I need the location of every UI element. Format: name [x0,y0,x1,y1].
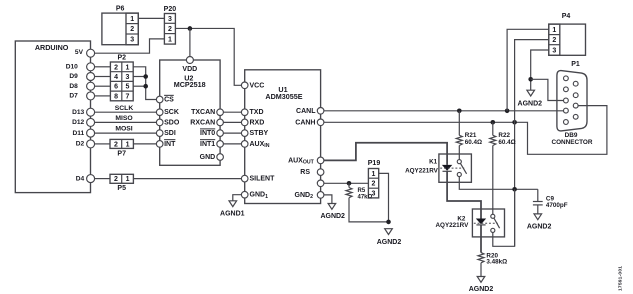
K1 opto coupling dashes [440,167,464,169]
junction CANH-P4.2 [512,120,517,125]
U1 pin TXD [241,109,248,116]
connector P7 [110,139,133,148]
svg-text:AGND2: AGND2 [320,213,345,220]
svg-text:AQY221RV: AQY221RV [405,167,439,174]
U1 pin GND_2 [317,192,324,199]
U1 pin GND_1 [241,191,248,198]
svg-text:3: 3 [126,74,130,81]
svg-text:D9: D9 [69,73,78,80]
wire 5V to P20 pin1 [95,39,164,53]
ground AGND2 at U1 [328,204,336,210]
Arduino pin D2 [87,140,95,148]
svg-text:D13: D13 [72,109,84,116]
U2 pin INT0 [217,130,224,137]
svg-text:CS: CS [164,97,174,104]
U1 pin SILENT [241,175,248,182]
junction tap [512,187,517,192]
svg-text:P7: P7 [117,150,126,157]
U2 pin INT1 [217,141,224,148]
svg-text:17591-001: 17591-001 [618,266,624,291]
svg-text:INT: INT [164,141,176,148]
svg-text:SCLK: SCLK [115,105,134,112]
svg-text:SCK: SCK [164,109,179,116]
K1 LED [446,154,448,165]
wire P2 pins 1,3,5 to U2 CS [133,67,156,100]
wire TXCAN to TXD [224,111,242,113]
svg-text:1: 1 [126,141,130,148]
svg-text:P5: P5 [117,185,126,192]
svg-text:4: 4 [114,74,118,81]
wire P20 pin2 to VDD and VCC rail [175,28,241,85]
Arduino pin 5V [87,49,95,57]
wire INT1 to AUXIN [224,143,242,145]
svg-text:P20: P20 [164,6,177,13]
svg-text:1: 1 [552,27,556,34]
svg-text:2: 2 [552,37,556,44]
svg-text:3: 3 [168,16,172,23]
svg-text:1: 1 [126,176,130,183]
K2 switch contacts [491,214,495,218]
DB9 pin hole left 5 [564,120,569,125]
ground AGND2 at P4 [527,90,535,96]
svg-text:2: 2 [168,26,172,33]
wire P7 to U2 INT [133,143,156,145]
svg-text:AGND2: AGND2 [469,286,494,293]
svg-text:SDI: SDI [164,130,176,137]
wire AGND2 net to DB9 pin3 [531,79,564,100]
ground AGND2 at R20 [477,277,485,283]
connector P20 [164,14,175,45]
wire P5 to U1 SILENT [133,178,241,180]
svg-text:D11: D11 [72,130,84,137]
U2 pin SDO [156,119,163,126]
resistor R22 60.4ohm [492,122,494,135]
connector P19 [368,169,378,198]
U2 pin RXCAN [217,119,224,126]
svg-text:60.4Ω: 60.4Ω [465,139,482,146]
U1 pin VCC [241,82,248,89]
U2 pin SCK [156,109,163,116]
junction RS-R5 [347,181,352,186]
svg-text:7: 7 [126,93,130,100]
ground AGND2 at C9 [534,214,542,220]
DB9 pin hole right 9 [573,114,578,119]
svg-text:1: 1 [168,36,172,43]
svg-text:3: 3 [130,37,134,44]
U1 pin RS [317,169,324,176]
wire D2 to P7 [95,143,110,145]
junction CANL-R21 [457,109,462,114]
svg-text:TXCAN: TXCAN [191,109,215,116]
wire P19 pin1 to AGND2 [379,173,389,222]
svg-text:MOSI: MOSI [115,126,132,133]
U1 pin CANL [317,108,324,115]
U1 pin STBY [241,130,248,137]
junction P2-3 [143,74,148,79]
wire D9 to P2-4 [95,76,111,78]
ground AGND1 [229,201,237,207]
svg-text:AGND2: AGND2 [377,239,402,246]
svg-text:1: 1 [130,16,134,23]
wire MISO D12 to U2 SDO [95,121,156,123]
svg-text:K1: K1 [429,159,438,166]
svg-text:INT0: INT0 [200,130,215,137]
junction R5-P19 gnd [386,220,391,225]
svg-text:R5: R5 [358,188,366,194]
U2 pin SDI [156,130,163,137]
K2 LED [480,209,482,219]
U1 pin CANH [317,119,324,126]
wire GND2 to AGND2 [324,195,332,204]
svg-text:RXD: RXD [250,119,265,126]
Arduino pin D11 [87,129,95,137]
U1 pin RXD [241,119,248,126]
svg-text:D4: D4 [76,175,85,182]
connector P4 [549,24,586,55]
wire AUXOUT to K1 LED [324,143,447,161]
svg-text:MISO: MISO [115,115,132,122]
connector P1 DB9 [557,71,587,131]
svg-text:D12: D12 [72,119,84,126]
svg-text:47kΩ: 47kΩ [358,195,373,201]
svg-text:5: 5 [126,84,130,91]
svg-text:D8: D8 [69,83,78,90]
svg-text:D2: D2 [76,141,85,148]
Arduino pin D10 [87,63,95,71]
K1 switch contacts [457,160,461,164]
U2 pin CS [156,96,163,103]
wire P4 pin3 to AGND2 [531,50,549,90]
svg-text:2: 2 [114,176,118,183]
wire RXCAN to RXD [224,121,242,123]
svg-text:P6: P6 [116,6,125,13]
svg-text:60.4Ω: 60.4Ω [498,139,515,146]
wire rail down to U2 VDD [189,28,191,56]
wire CANH bus [324,106,607,155]
wire D10 to P2-2 [95,66,111,68]
svg-text:AQY221RV: AQY221RV [436,222,470,229]
wire D4 to P5 [95,178,110,180]
ground AGND2 at P19 [385,229,393,235]
svg-text:2: 2 [130,26,134,33]
DB9 pin hole right 7 [573,93,578,98]
DB9 pin hole left 1 [564,76,569,81]
wire SCLK D13 to U2 SCK [95,111,156,113]
svg-text:SILENT: SILENT [250,176,276,183]
svg-text:SDO: SDO [164,119,180,126]
junction P2-5 [143,84,148,89]
wire D7 to P2-8 [95,95,111,97]
svg-text:TXD: TXD [250,109,264,116]
junction CANH-R22 [491,120,496,125]
connector P2 [110,62,133,101]
Arduino pin D9 [87,73,95,81]
wire P4 pin1 to CANL [507,29,549,111]
svg-text:CANH: CANH [295,119,315,126]
K2 switch blade [494,218,500,228]
resistor R5 47kohm [348,183,350,187]
connector P5 [110,174,133,183]
junction CANL-P4.1 [505,109,510,114]
svg-text:ARDUINO: ARDUINO [35,43,69,52]
resistor R21 60.4ohm [458,111,460,136]
relay K2 AQY221RV [472,209,504,237]
U2 pin TXCAN [217,109,224,116]
DB9 pin hole left 2 [564,87,569,92]
U1 pin AUX_IN [241,141,248,148]
svg-text:P4: P4 [562,13,571,20]
svg-text:AGND2: AGND2 [518,100,543,107]
junction AGND2-P4 [528,77,533,82]
svg-text:D7: D7 [69,93,78,100]
svg-text:P1: P1 [571,61,580,68]
svg-text:RXCAN: RXCAN [190,119,215,126]
svg-text:GND1: GND1 [250,192,269,200]
K1 switch blade [460,163,466,174]
connector P6 [102,13,138,45]
svg-text:3: 3 [552,47,556,54]
svg-text:AUXOUT: AUXOUT [288,157,315,165]
svg-text:3.48kΩ: 3.48kΩ [486,258,507,265]
svg-text:1: 1 [372,171,376,178]
wire D8 to P2-6 [95,85,111,87]
capacitor C9 4700pF [537,189,539,201]
svg-text:VDD: VDD [182,66,197,73]
svg-text:5V: 5V [75,49,84,56]
wire K1 LED cathode to K2 LED anode [447,171,481,209]
Arduino pin D12 [87,118,95,126]
wire CANL bus [324,110,564,112]
svg-text:MCP2518: MCP2518 [174,80,206,89]
DB9 pin hole right 6 [573,81,578,86]
wire P6 pin1 to P20 pin3 [138,17,164,19]
svg-text:2: 2 [114,141,118,148]
svg-text:INT1: INT1 [200,141,215,148]
svg-text:D10: D10 [66,64,78,71]
svg-text:2: 2 [114,64,118,71]
IC U1 ADM3055E [245,70,321,204]
svg-text:P19: P19 [368,160,381,167]
svg-text:GND2: GND2 [295,192,314,200]
U2 pin INT [156,141,163,148]
Arduino pin D4 [87,175,95,183]
wire MOSI D11 to U2 SDI [95,132,156,134]
svg-text:AUXIN: AUXIN [250,141,270,149]
U2 pin GND [217,154,224,161]
svg-text:4700pF: 4700pF [546,202,568,209]
svg-text:R22: R22 [498,132,510,139]
svg-text:AGND2: AGND2 [527,224,552,231]
svg-text:RS: RS [300,169,310,176]
DB9 pin hole right 8 [573,103,578,108]
svg-text:ADM3055E: ADM3055E [265,92,302,101]
junction on VDD rail [188,26,193,31]
svg-text:P2: P2 [118,54,127,61]
svg-text:VCC: VCC [250,82,265,89]
wire tap down to K2 switch [493,189,515,246]
wire K1 switch to C9 tap [459,177,538,190]
IC U2 MCP2518 [160,60,220,165]
U2 pin VDD [186,57,193,64]
wire GND1 to AGND1 [233,195,242,201]
svg-text:STBY: STBY [250,130,269,137]
Arduino pin D13 [87,108,95,116]
wire P4 pin2 to CANH and termination tap [515,40,549,247]
wire RS pin to P19 [324,182,369,184]
Arduino pin D8 [87,82,95,90]
relay K1 AQY221RV [439,154,472,182]
svg-text:GND: GND [200,154,216,161]
svg-text:1: 1 [126,64,130,71]
resistor R20 3.48kohm [480,225,482,253]
svg-text:CONNECTOR: CONNECTOR [551,139,592,146]
DB9 pin hole left 4 [564,108,569,113]
svg-text:AGND1: AGND1 [220,210,245,217]
svg-text:8: 8 [114,93,118,100]
svg-text:2: 2 [372,181,376,188]
svg-text:6: 6 [114,84,118,91]
svg-text:R21: R21 [465,132,477,139]
svg-text:CANL: CANL [296,108,316,115]
Arduino pin D7 [87,92,95,100]
DB9 pin hole left 3 [564,98,569,103]
Arduino board block [15,41,90,193]
U1 pin RS wire pin [317,180,324,187]
K2 opto coupling dashes [474,222,498,224]
U1 pin AUX_OUT [317,157,324,164]
wire INT0 to STBY [224,132,242,134]
